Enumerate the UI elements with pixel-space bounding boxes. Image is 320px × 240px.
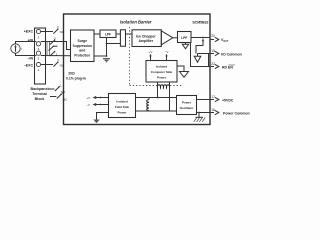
svg-text:Power: Power <box>182 101 192 105</box>
svg-text:LPF: LPF <box>105 32 111 36</box>
svg-text:Field Side: Field Side <box>115 105 130 109</box>
svg-text:Isolation Barrier: Isolation Barrier <box>120 20 152 25</box>
svg-text:Protection: Protection <box>74 53 90 57</box>
svg-text:22: 22 <box>211 62 215 66</box>
svg-text:and: and <box>79 49 85 53</box>
svg-text:Amplifier: Amplifier <box>138 39 153 43</box>
svg-text:Power: Power <box>157 76 167 80</box>
svg-text:+5VDC: +5VDC <box>222 99 234 103</box>
svg-text:Power Common: Power Common <box>223 112 250 116</box>
svg-text:RD EN: RD EN <box>222 66 233 70</box>
svg-text:Surge: Surge <box>77 39 87 43</box>
svg-text:Terminal: Terminal <box>32 92 47 96</box>
svg-text:20Ω: 20Ω <box>68 72 75 76</box>
svg-text:19: 19 <box>211 49 215 53</box>
svg-text:Isolated: Isolated <box>156 64 168 68</box>
svg-text:−IN: −IN <box>27 56 33 60</box>
svg-text:Power: Power <box>117 111 127 115</box>
svg-text:+V: +V <box>87 96 91 100</box>
svg-text:Computer Side: Computer Side <box>151 70 173 74</box>
svg-text:Oscillator: Oscillator <box>180 106 195 110</box>
svg-text:17: 17 <box>211 95 215 99</box>
svg-text:Isolated: Isolated <box>116 99 128 103</box>
svg-text:Iso Chopper: Iso Chopper <box>136 34 156 38</box>
svg-text:0.1% plug-in: 0.1% plug-in <box>66 77 86 81</box>
svg-text:−V: −V <box>87 103 91 107</box>
svg-text:20: 20 <box>211 34 215 38</box>
svg-text:I/O Common: I/O Common <box>221 53 242 57</box>
svg-text:+EXC: +EXC <box>24 30 34 34</box>
svg-text:SCM5B32: SCM5B32 <box>192 21 208 25</box>
svg-text:16: 16 <box>211 108 215 112</box>
svg-text:Backpanel: Backpanel <box>31 87 49 91</box>
svg-text:Suppression: Suppression <box>73 44 92 48</box>
svg-text:LPF: LPF <box>181 36 187 40</box>
svg-text:Block: Block <box>35 97 45 101</box>
svg-text:−EXC: −EXC <box>24 64 34 68</box>
